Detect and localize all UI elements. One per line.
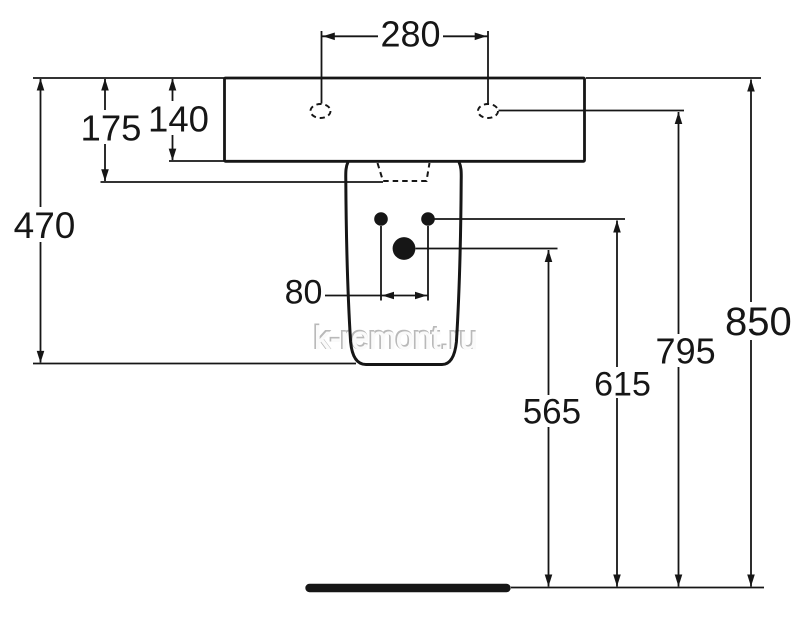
arrow down 175 bbox=[101, 169, 109, 181]
dimension 175 vertical line bbox=[104, 79, 106, 181]
arrow right 80 bbox=[415, 292, 427, 300]
arrow down 470 bbox=[37, 351, 45, 363]
wire: 470 bottom reference line (y=363.5) bbox=[33, 363, 356, 365]
pedestal big hole bbox=[393, 237, 416, 260]
wire: big hole level line to 565 bbox=[416, 248, 558, 250]
arrow up 795 bbox=[675, 112, 683, 124]
label 80 bbox=[283, 274, 325, 312]
arrow right 280 bbox=[475, 33, 487, 41]
svg-text:615: 615 bbox=[594, 365, 651, 403]
dimension 470 vertical line bbox=[40, 79, 42, 363]
dimension 565 vertical line bbox=[548, 250, 550, 587]
arrow left 80 bbox=[382, 292, 394, 300]
dimension 615 vertical line bbox=[616, 221, 618, 587]
arrow up 470 bbox=[37, 79, 45, 91]
dimension 795 vertical line bbox=[678, 112, 680, 587]
sink basin body bbox=[225, 78, 585, 161]
svg-text:k-remont.ru: k-remont.ru bbox=[314, 320, 478, 356]
arrow left 280 bbox=[323, 33, 335, 41]
arrow down 850 bbox=[747, 575, 755, 587]
drain outline dashed (hidden) bbox=[378, 163, 430, 181]
wire: faucet hole level line to 795 bbox=[499, 110, 685, 112]
pedestal body bbox=[346, 162, 462, 365]
svg-text:175: 175 bbox=[81, 108, 142, 149]
extension line 280 left bbox=[321, 31, 323, 104]
label 140 bbox=[148, 99, 209, 140]
watermark k-remont.ru bbox=[313, 319, 478, 356]
wire: 80 dimension line bbox=[323, 295, 429, 297]
extension stem right pedestal hole bbox=[427, 226, 429, 301]
svg-text:140: 140 bbox=[148, 99, 209, 140]
arrow up 175 bbox=[101, 79, 109, 91]
label 565 bbox=[520, 393, 584, 432]
wire: 175 bottom reference line (y=182) bbox=[101, 181, 384, 183]
wire: top reference line right of sink to 850 bbox=[586, 77, 761, 79]
wire: sink bottom reference left (140) bbox=[169, 160, 225, 162]
label 615 bbox=[591, 365, 654, 403]
svg-text:280: 280 bbox=[380, 14, 440, 55]
arrow down 140 bbox=[169, 149, 177, 161]
arrow up 565 bbox=[545, 250, 553, 262]
svg-text:565: 565 bbox=[523, 393, 581, 432]
wire: top reference line left of sink (y=78) bbox=[33, 77, 225, 79]
label 795 bbox=[655, 331, 717, 372]
pedestal fixing hole left bbox=[374, 212, 388, 226]
wire: thin floor line right part bbox=[511, 587, 764, 589]
arrow down 565 bbox=[545, 575, 553, 587]
extension stem left pedestal hole bbox=[380, 226, 382, 301]
floor thick line bbox=[310, 584, 507, 592]
dimension 850 vertical line bbox=[750, 80, 752, 587]
extension line 280 right bbox=[487, 31, 489, 104]
svg-text:470: 470 bbox=[14, 205, 76, 246]
dimension 140 vertical line bbox=[172, 79, 174, 160]
arrowheads bbox=[37, 33, 755, 587]
dimension 280 line bbox=[322, 35, 489, 37]
label 175 bbox=[81, 108, 142, 149]
arrow up 850 bbox=[747, 80, 755, 92]
faucet hole right (dashed ellipse) bbox=[478, 104, 498, 118]
wire: upper pedestal holes level line to 615 bbox=[435, 218, 626, 220]
svg-text:850: 850 bbox=[725, 300, 792, 344]
label 470 bbox=[13, 205, 76, 246]
svg-text:80: 80 bbox=[285, 274, 323, 312]
arrow up 140 bbox=[169, 79, 177, 91]
arrow up 615 bbox=[613, 221, 621, 233]
pedestal fixing hole right bbox=[421, 212, 435, 226]
arrow down 795 bbox=[675, 575, 683, 587]
svg-text:795: 795 bbox=[656, 331, 716, 372]
faucet hole left (dashed ellipse) bbox=[311, 104, 331, 118]
label 850 bbox=[725, 300, 792, 344]
label 280 bbox=[378, 14, 443, 55]
arrow down 615 bbox=[613, 575, 621, 587]
